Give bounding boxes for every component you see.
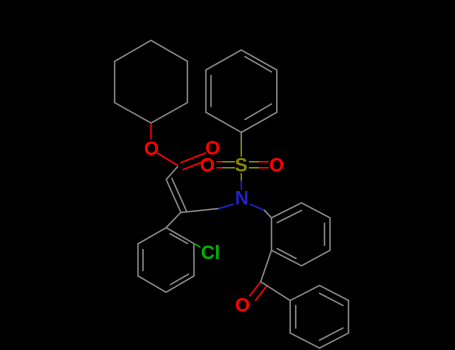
svg-text:N: N [235, 189, 249, 210]
wire ring to Cl [194, 244, 200, 248]
S=O left double bond [217, 162, 235, 168]
wire carbonyl C to C1 [166, 167, 177, 180]
C1=C2 double bond [166, 178, 186, 212]
svg-text:O: O [144, 139, 159, 160]
ketone C=O double bond [250, 282, 267, 301]
phenyl B ring [290, 286, 348, 349]
svg-text:O: O [235, 295, 250, 316]
benzenesulfonyl ring [206, 50, 277, 132]
svg-text:O: O [269, 156, 284, 177]
S=O right double bond [250, 162, 269, 168]
carbonyl C=O double bond [181, 153, 208, 170]
wire S to N [240, 174, 242, 182]
N-aryl ring [272, 203, 331, 266]
wire C2 to N [181, 209, 219, 213]
svg-text:Cl: Cl [201, 243, 220, 264]
wire C14 to ketone C [261, 250, 272, 281]
wire ketone C to phenyl B [261, 282, 291, 301]
chlorophenyl ring [138, 228, 194, 293]
cyclohexyl ring [115, 40, 188, 123]
wire C2 to chlorophenyl [166, 212, 181, 227]
wire ring to S [240, 132, 242, 142]
svg-text:O: O [200, 156, 215, 177]
wire ring to ester O [150, 125, 152, 140]
wire N to aryl C9 [251, 204, 265, 210]
wire O to carbonyl C [158, 153, 178, 165]
